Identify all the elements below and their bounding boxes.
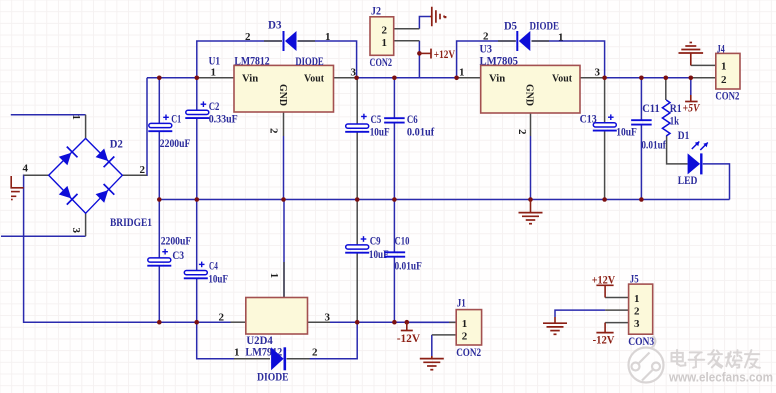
svg-text:2: 2 <box>268 128 280 134</box>
svg-text:0.01uf: 0.01uf <box>407 126 434 138</box>
svg-text:J1: J1 <box>457 298 466 310</box>
svg-text:J2: J2 <box>371 6 381 18</box>
bridge pin 2 stub <box>122 174 147 176</box>
svg-text:C4: C4 <box>209 261 218 273</box>
junction dots +5V rail <box>602 76 693 81</box>
wire U1 GND pin lead <box>283 112 285 200</box>
U3 pin 3 stub <box>580 77 605 79</box>
wire +12V rail middle section <box>334 77 481 79</box>
power port +12V (J5) <box>592 274 616 297</box>
wire C6 lead <box>393 78 395 200</box>
wire D5 bypass branch <box>457 41 516 78</box>
svg-text:2: 2 <box>634 306 640 318</box>
svg-text:C11: C11 <box>642 103 660 115</box>
label LM7912 <box>245 346 282 358</box>
connector J4 body <box>716 53 740 89</box>
power port -12V (J1) <box>397 322 421 345</box>
wire C10 lead <box>393 200 395 323</box>
U1 pin 1 stub <box>197 77 234 79</box>
junction dots ground rail <box>157 197 644 202</box>
svg-text:2: 2 <box>721 74 727 86</box>
J4 pin 1 number <box>721 61 727 73</box>
label C13 <box>580 114 597 126</box>
svg-text:+12V: +12V <box>434 49 456 61</box>
svg-text:www.elecfans.com: www.elecfans.com <box>668 370 773 385</box>
svg-text:3: 3 <box>70 228 82 234</box>
wire C4 lead <box>196 200 198 323</box>
label U1 <box>209 56 221 68</box>
svg-text:1: 1 <box>211 67 217 79</box>
U2 pin 1 stub <box>283 262 285 298</box>
J2 pin stubs <box>394 29 420 41</box>
svg-text:3: 3 <box>325 311 331 323</box>
label C4 <box>209 261 218 273</box>
label C5 <box>371 114 382 126</box>
svg-text:0.33uF: 0.33uF <box>209 113 238 125</box>
bridge pin 2 number <box>140 164 146 176</box>
svg-text:CON2: CON2 <box>715 91 739 103</box>
wire C1 lead <box>158 78 160 200</box>
wire C13 lead <box>604 78 606 200</box>
svg-text:1: 1 <box>634 293 640 305</box>
label J1 <box>457 298 466 310</box>
U2 pin 2 number <box>219 311 225 323</box>
U1 pin name GND <box>277 84 289 106</box>
ground U3 GND <box>519 200 543 224</box>
U1 pin 3 number <box>351 67 357 79</box>
svg-text:2: 2 <box>516 129 528 135</box>
svg-text:2: 2 <box>219 311 225 323</box>
J2 pin 1 number <box>382 37 388 49</box>
svg-text:Vout: Vout <box>552 73 572 85</box>
svg-text:LM7812: LM7812 <box>234 56 270 68</box>
capacitor C11 <box>631 120 652 124</box>
U3 pin name GND <box>524 84 536 106</box>
U3 pin 2 number <box>516 129 528 135</box>
svg-text:LM7805: LM7805 <box>480 56 519 68</box>
D4 pin stubs <box>234 358 310 360</box>
label D1 <box>678 130 690 142</box>
svg-text:CON2: CON2 <box>370 57 393 69</box>
watermark elecfans text <box>668 350 773 385</box>
label J4 CON2 <box>715 91 739 103</box>
label J5 <box>630 274 639 286</box>
label U3 <box>480 44 493 56</box>
svg-text:2: 2 <box>312 347 318 359</box>
wire J2 vertical to rail <box>418 41 420 78</box>
label U2D4 <box>246 335 273 347</box>
svg-text:1: 1 <box>234 347 240 359</box>
value C10 0.01uF <box>395 261 422 273</box>
svg-text:C6: C6 <box>407 114 418 126</box>
svg-text:C5: C5 <box>371 114 382 126</box>
value C13 10uF <box>616 127 637 139</box>
capacitor C1 <box>148 115 172 132</box>
label D3 <box>268 20 282 32</box>
svg-text:LED: LED <box>678 175 698 187</box>
R1 top stub <box>665 78 667 100</box>
U1 pin 2 number <box>268 128 280 134</box>
svg-text:1k: 1k <box>670 115 680 127</box>
U2 pin 2 stub <box>231 321 246 323</box>
wire C11 lead <box>640 78 642 200</box>
wire J5 pin2 to ground <box>555 310 605 317</box>
svg-text:BRIDGE1: BRIDGE1 <box>110 217 152 229</box>
U1 pin name Vin <box>242 73 258 85</box>
U1 pin 3 stub <box>334 77 357 79</box>
wire AC input bottom (bridge pin 3) <box>1 235 86 237</box>
ground J5 <box>543 317 567 334</box>
svg-text:2: 2 <box>382 25 388 37</box>
label C1 <box>171 114 181 126</box>
diode D5 <box>517 31 530 51</box>
capacitor C3 <box>147 249 171 266</box>
power port -12V (J5) <box>593 323 616 347</box>
junction dots +12V rail <box>157 51 459 80</box>
label D4 DIODE <box>257 372 289 384</box>
svg-text:1: 1 <box>721 61 727 73</box>
wire U2 pin1 lead <box>283 200 285 298</box>
label C10 <box>395 236 410 248</box>
svg-text:2: 2 <box>462 331 468 343</box>
wire J2 pin2 to ground <box>419 17 430 29</box>
svg-text:C1: C1 <box>171 114 181 126</box>
label J5 CON3 <box>628 336 654 348</box>
watermark elecfans logo <box>629 336 664 383</box>
svg-text:C13: C13 <box>580 114 597 126</box>
D4 pin 2 number <box>312 347 318 359</box>
wire AC input top (bridge pin 1) <box>11 114 86 116</box>
svg-text:J5: J5 <box>630 274 639 286</box>
D3 pin 2 number <box>245 31 251 43</box>
svg-text:1: 1 <box>462 318 468 330</box>
bridge pin 3 number <box>70 228 82 234</box>
svg-text:3: 3 <box>351 67 357 79</box>
svg-text:CON2: CON2 <box>456 347 481 359</box>
J5 pin 2 number <box>634 306 640 318</box>
label D5 DIODE <box>530 21 560 33</box>
value C2 0.33uF <box>209 113 238 125</box>
U3 pin 1 number <box>459 67 465 79</box>
U1 pin 1 number <box>211 67 217 79</box>
wire D4 cathode branch <box>287 322 358 359</box>
U2 pin 3 stub <box>308 321 331 323</box>
value C4 10uF <box>208 274 228 286</box>
capacitor C4 <box>184 262 208 279</box>
J5 pin 2 stub <box>605 309 629 311</box>
diode D3 <box>284 31 297 51</box>
svg-text:C2: C2 <box>209 101 220 113</box>
ground left (AC center tap) <box>11 176 24 200</box>
D3 pin stubs <box>264 40 315 42</box>
svg-text:C9: C9 <box>370 236 381 248</box>
svg-text:Vout: Vout <box>304 73 324 85</box>
U2 pin 3 number <box>325 311 331 323</box>
bridge diode top-left <box>59 147 78 166</box>
svg-text:+5V: +5V <box>683 103 701 115</box>
svg-text:D2: D2 <box>110 139 123 151</box>
svg-text:D3: D3 <box>268 20 282 32</box>
svg-text:D5: D5 <box>504 21 517 33</box>
label J4 <box>717 43 725 55</box>
ground J2 (rotated) <box>430 7 446 27</box>
svg-text:4: 4 <box>23 163 29 175</box>
wire C5 lead <box>356 78 358 200</box>
svg-text:1: 1 <box>70 115 82 121</box>
LED D1 arrows <box>692 142 708 151</box>
wire ground rail <box>159 199 729 201</box>
svg-text:0.01uF: 0.01uF <box>395 261 422 273</box>
wire bridge pin4 down to -12V rail <box>24 175 231 322</box>
label C9 <box>370 236 381 248</box>
D3 pin 1 number <box>325 31 331 43</box>
bridge D2 diamond <box>49 138 123 213</box>
svg-text:1: 1 <box>268 273 280 279</box>
bridge pin 1 number <box>70 115 82 121</box>
U3 pin name Vout <box>552 73 572 85</box>
label C11 <box>642 103 660 115</box>
J4 pin 2 number <box>721 74 727 86</box>
label C6 <box>407 114 418 126</box>
value C5 10uF <box>370 126 390 138</box>
svg-text:DIODE: DIODE <box>257 372 289 384</box>
label D2 <box>110 139 123 151</box>
bridge pin 4 number <box>23 163 29 175</box>
svg-text:GND: GND <box>277 84 289 106</box>
wire +5V rail right section <box>580 77 716 79</box>
value C11 0.01uf <box>641 139 666 151</box>
svg-text:2: 2 <box>483 31 489 43</box>
bridge diode top-right <box>96 149 115 168</box>
svg-text:D1: D1 <box>678 130 690 142</box>
svg-text:1: 1 <box>558 32 564 44</box>
capacitor C6 <box>384 118 405 122</box>
svg-text:C10: C10 <box>395 236 410 248</box>
label C2 <box>209 101 220 113</box>
U2 pin 1 number <box>268 273 280 279</box>
capacitor C10 <box>385 252 406 256</box>
svg-text:10uF: 10uF <box>208 274 228 286</box>
svg-text:U3: U3 <box>480 44 493 56</box>
ground J1 <box>420 356 444 370</box>
R1 bottom stub <box>667 136 688 164</box>
connector J2 body <box>370 17 394 56</box>
op-amp U3 LM7805 body <box>481 65 580 113</box>
power port +12V (top) <box>419 49 455 61</box>
connector J1 body <box>456 310 481 345</box>
U3 pin 3 number <box>595 67 601 79</box>
wire LED cathode return <box>703 164 730 200</box>
J4 pin 2 stub <box>691 77 716 79</box>
wire D3 bypass branch <box>197 41 282 78</box>
D5 pin stubs <box>498 40 549 42</box>
ground J4 (inverted) <box>679 43 704 66</box>
label BRIDGE1 <box>110 217 152 229</box>
LED D1 <box>688 153 702 174</box>
D4 pin 1 number <box>234 347 240 359</box>
svg-text:Vin: Vin <box>242 73 258 85</box>
value C3 2200uF <box>161 236 192 248</box>
J5 pin 1 stub <box>605 297 629 299</box>
svg-text:C3: C3 <box>172 250 184 262</box>
bridge diode bottom-right <box>96 184 115 203</box>
svg-text:R1: R1 <box>670 103 682 115</box>
D5 pin 1 number <box>558 32 564 44</box>
bridge diode bottom-left <box>59 186 78 205</box>
power port +5V <box>683 95 701 115</box>
svg-text:3: 3 <box>595 67 601 79</box>
svg-text:1: 1 <box>382 37 388 49</box>
label D3 DIODE <box>295 56 324 68</box>
bridge pin 1 stub <box>85 115 87 139</box>
svg-text:CON3: CON3 <box>628 336 654 348</box>
svg-text:J4: J4 <box>717 43 725 55</box>
wire D5 cathode to rail <box>532 41 605 78</box>
D5 pin 2 number <box>483 31 489 43</box>
J1 pin 2 stub <box>432 334 456 336</box>
label J1 CON2 <box>456 347 481 359</box>
svg-text:2: 2 <box>140 164 146 176</box>
value C1 2200uF <box>160 138 191 150</box>
J1 pin 2 number <box>462 331 468 343</box>
resistor R1 <box>662 100 670 136</box>
capacitor C5 <box>345 114 369 132</box>
wire U3 GND pin lead <box>530 113 532 200</box>
wire D4 anode branch <box>197 322 270 359</box>
wire D3 cathode to rail <box>298 41 357 78</box>
label LM7805 <box>480 56 519 68</box>
wire +5V tap <box>690 78 692 95</box>
svg-text:U2D4: U2D4 <box>246 335 273 347</box>
value C6 0.01uf <box>407 126 434 138</box>
wire J1 pin1 wire <box>407 321 449 323</box>
capacitor C2 <box>185 101 209 118</box>
J1 pin 1 stub <box>449 321 456 323</box>
svg-text:10uF: 10uF <box>370 126 390 138</box>
svg-text:0.01uf: 0.01uf <box>641 139 666 151</box>
J5 pin 1 number <box>634 293 640 305</box>
value C9 10uF <box>369 249 389 261</box>
svg-text:2: 2 <box>245 31 251 43</box>
svg-text:GND: GND <box>524 84 536 106</box>
J2 pin 2 number <box>382 25 388 37</box>
capacitor C9 <box>345 236 369 253</box>
wire C2 lead <box>196 78 198 200</box>
bridge pin 3 stub <box>85 213 87 236</box>
op-amp U2 LM7912 body <box>246 298 308 335</box>
svg-text:2200uF: 2200uF <box>160 138 191 150</box>
value R1 1k <box>670 115 680 127</box>
connector J5 body <box>629 284 653 334</box>
U3 pin 1 stub <box>457 77 481 79</box>
capacitor C13 <box>593 114 617 130</box>
label LED <box>678 175 698 187</box>
svg-text:10uF: 10uF <box>616 127 637 139</box>
svg-text:1: 1 <box>325 31 331 43</box>
J5 pin 3 number <box>634 318 640 330</box>
label R1 <box>670 103 682 115</box>
J4 pin 1 stub <box>691 64 716 66</box>
label D5 <box>504 21 517 33</box>
op-amp U1 LM7812 body <box>234 65 334 112</box>
svg-text:-12V: -12V <box>593 334 616 346</box>
svg-text:DIODE: DIODE <box>530 21 560 33</box>
U1 pin name Vout <box>304 73 324 85</box>
svg-text:2200uF: 2200uF <box>161 236 192 248</box>
svg-text:10uF: 10uF <box>369 249 389 261</box>
label J2 CON2 <box>370 57 393 69</box>
wire bridge pin2 to +12V rail <box>122 78 147 176</box>
svg-text:DIODE: DIODE <box>295 56 324 68</box>
label C3 <box>172 250 184 262</box>
label LM7812 <box>234 56 270 68</box>
junction dots -12V rail <box>157 320 409 325</box>
label J2 <box>371 6 381 18</box>
svg-text:1: 1 <box>459 67 465 79</box>
J1 pin 1 number <box>462 318 468 330</box>
wire C9 lead <box>356 200 358 323</box>
U3 pin name Vin <box>489 73 505 85</box>
diode D4 <box>271 347 285 370</box>
bridge pin 4 stub <box>24 174 49 176</box>
wire C3 lead <box>158 200 160 323</box>
svg-text:Vin: Vin <box>489 73 505 85</box>
svg-text:3: 3 <box>634 318 640 330</box>
wire J1 pin2 to ground <box>431 335 433 356</box>
J5 pin 3 stub <box>605 322 629 324</box>
wire +12V rail left section <box>147 77 234 79</box>
wire -12V rail right section <box>308 321 457 323</box>
svg-text:-12V: -12V <box>397 333 421 345</box>
